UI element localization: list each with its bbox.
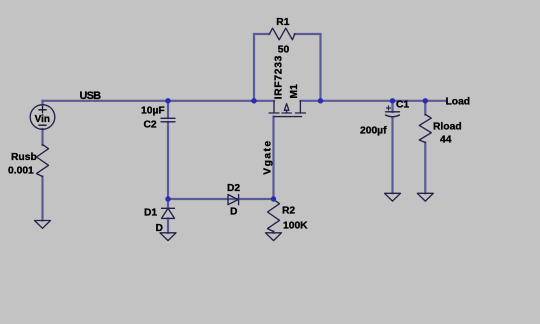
resistor R1 zigzag (269, 28, 295, 40)
wire bottom rail C2 to R2 node (168, 198, 274, 200)
wire Rload top stub (424, 101, 426, 115)
svg-text:D1: D1 (144, 208, 157, 219)
ground symbol under D1 (160, 233, 176, 241)
svg-text:100K: 100K (283, 221, 308, 232)
mosfet M1 arrow stem (286, 110, 288, 113)
voltage source plus sign (39, 106, 46, 112)
svg-text:Vin: Vin (35, 114, 50, 125)
wire Rusb to ground (41, 177, 43, 221)
wire right rail to Load (300, 100, 445, 102)
junction node at C2 bottom / D1 (165, 196, 170, 201)
svg-text:C2: C2 (144, 120, 157, 131)
svg-text:M1: M1 (289, 84, 300, 99)
junction node at C2 top (165, 98, 170, 103)
svg-text:0.001: 0.001 (8, 165, 34, 176)
voltage source minus sign (39, 124, 46, 126)
resistor Rload zigzag (419, 115, 431, 143)
voltage source V1 circle (30, 105, 55, 130)
mosfet M1 left foot (269, 112, 279, 114)
junction node at Rload (423, 98, 428, 103)
diode D2 triangle (228, 195, 238, 205)
resistor Rusb zigzag (37, 145, 49, 177)
wire C1 top stub (391, 101, 393, 112)
svg-text:D: D (156, 223, 163, 234)
svg-text:R2: R2 (282, 206, 295, 217)
mosfet M1 right bar (299, 101, 301, 113)
mosfet M1 middle foot (282, 112, 291, 114)
svg-text:D: D (230, 207, 237, 218)
resistor R2 zigzag (268, 200, 280, 232)
wire C2 bottom (167, 122, 169, 199)
svg-text:R1: R1 (276, 17, 289, 28)
capacitor C2 plates (161, 118, 175, 122)
svg-text:50: 50 (278, 44, 290, 55)
ground symbol under Rload (417, 193, 433, 201)
wire C2 top stub (167, 101, 169, 118)
wire R2 to ground stub (272, 232, 274, 233)
capacitor C1 top plate (386, 111, 400, 113)
svg-text:Load: Load (446, 96, 471, 107)
svg-text:10µF: 10µF (141, 105, 165, 116)
capacitor C1 plus mark (387, 106, 391, 110)
mosfet M1 gate plate (274, 116, 302, 118)
wire Rload to ground (424, 143, 426, 194)
wire USB rail (43, 100, 275, 102)
svg-text:200µf: 200µf (360, 126, 387, 137)
svg-text:Rload: Rload (433, 122, 462, 133)
svg-text:D2: D2 (227, 183, 240, 194)
junction node at R1 right (318, 98, 323, 103)
ground symbol under Rusb (35, 221, 51, 229)
wire Vin top stub (41, 101, 43, 105)
diode D1 cathode bar (162, 207, 175, 209)
mosfet M1 arrow head (284, 104, 289, 111)
junction node at Vgate / R2 (271, 196, 276, 201)
junction node at C1 (390, 98, 395, 103)
wire R1 right vertical (295, 34, 321, 101)
capacitor C1 curved plate (386, 115, 400, 117)
mosfet M1 right foot (295, 112, 305, 114)
ground symbol under C1 (385, 193, 401, 201)
diode D2 cathode bar (238, 195, 240, 205)
wire R1 left vertical (254, 34, 269, 101)
wire Vgate (272, 117, 274, 199)
svg-text:IRF7233: IRF7233 (274, 55, 285, 99)
svg-text:USB: USB (80, 90, 102, 102)
svg-text:Rusb: Rusb (11, 152, 37, 163)
wire D1 to ground (167, 218, 169, 232)
wire C1 to ground (391, 118, 393, 194)
svg-text:44: 44 (440, 135, 452, 146)
svg-text:Vgate: Vgate (263, 139, 274, 174)
wire D1 top stub (167, 199, 169, 208)
diode D1 triangle (162, 208, 175, 218)
junction node at R1 left (251, 98, 256, 103)
svg-text:C1: C1 (396, 100, 409, 111)
wire Vin bottom to Rusb (41, 129, 43, 145)
mosfet M1 left bar (273, 101, 275, 113)
ground symbol under R2 (266, 233, 282, 241)
